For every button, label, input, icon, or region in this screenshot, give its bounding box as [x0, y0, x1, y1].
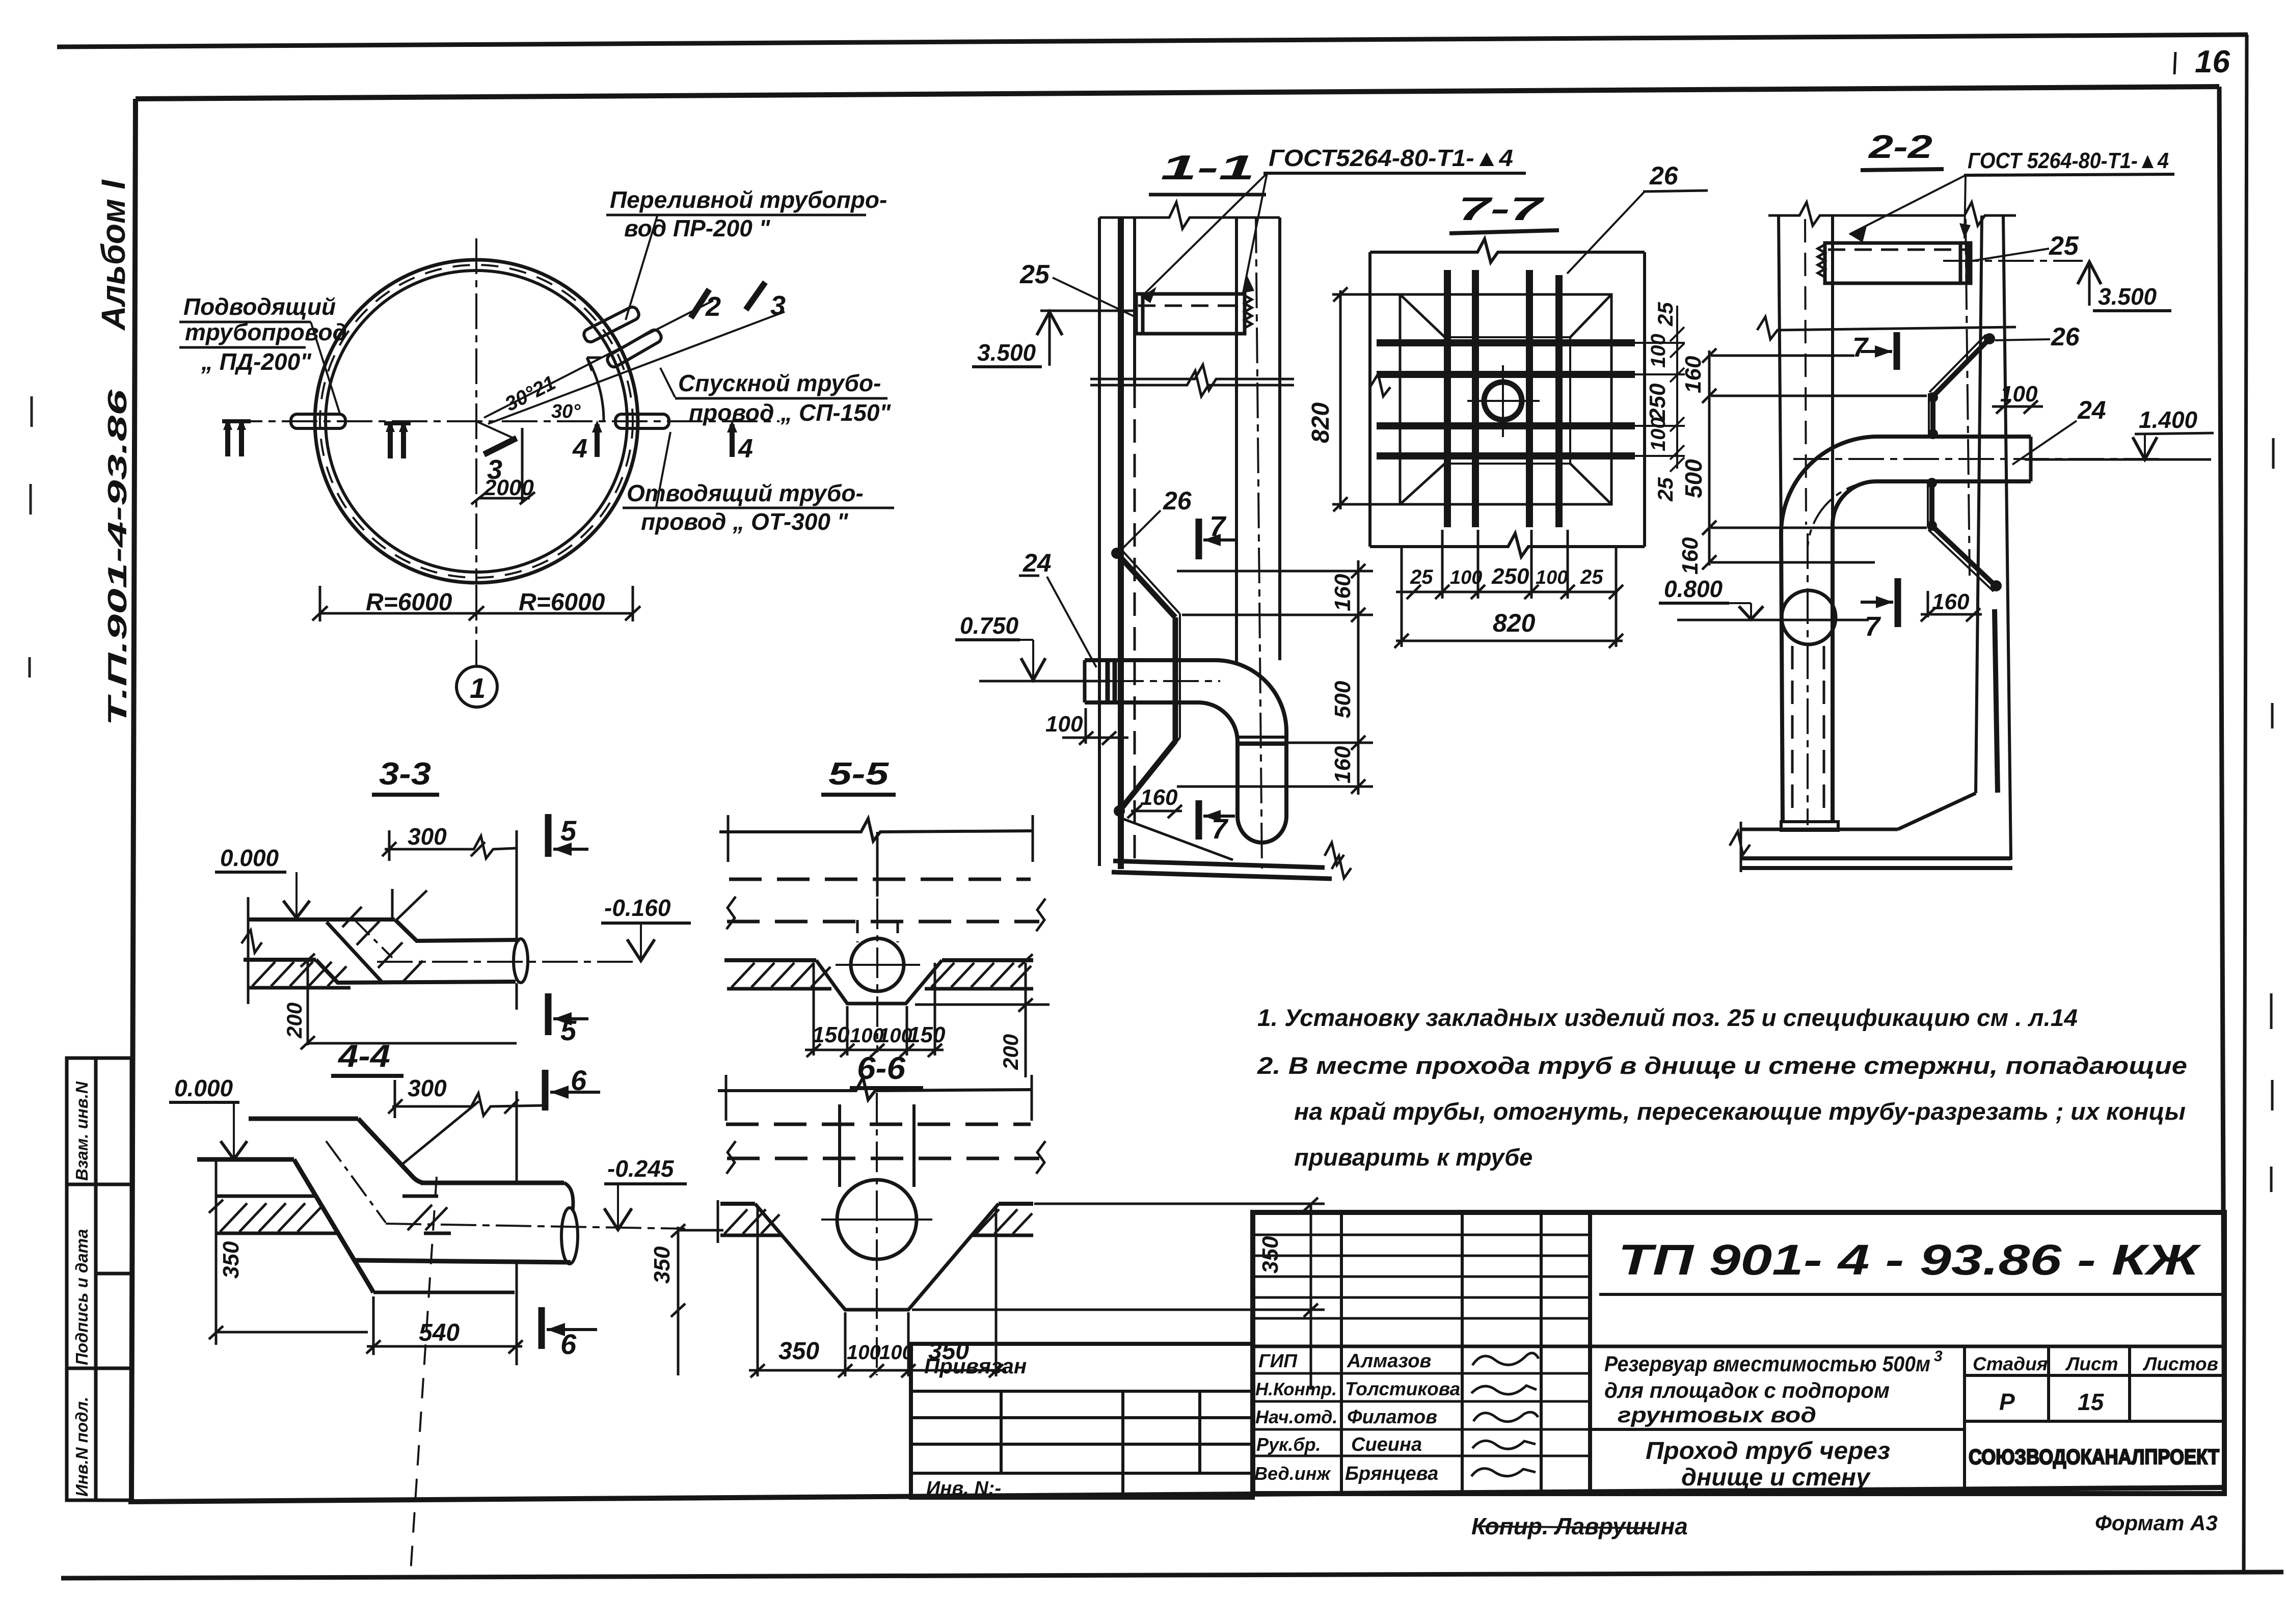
svg-text:провод „ СП-150": провод „ СП-150": [689, 399, 891, 426]
svg-text:25: 25: [1019, 260, 1050, 289]
svg-text:Нач.отд.: Нач.отд.: [1255, 1406, 1337, 1427]
svg-text:Рук.бр.: Рук.бр.: [1256, 1434, 1321, 1455]
svg-text:Инв. N:-: Инв. N:-: [926, 1478, 1001, 1499]
svg-text:на край трубы, отогнуть, п: на край трубы, отогнуть, пересекающие тр…: [1294, 1098, 2186, 1125]
svg-text:100: 100: [1450, 567, 1482, 588]
svg-text:6: 6: [571, 1064, 587, 1096]
svg-text:7: 7: [1209, 510, 1227, 542]
svg-text:100: 100: [2000, 382, 2038, 407]
svg-text:6: 6: [560, 1328, 577, 1360]
svg-text:250: 250: [1645, 383, 1670, 421]
svg-text:Взам. инв.N: Взам. инв.N: [72, 1081, 91, 1181]
svg-text:R=6000: R=6000: [519, 589, 605, 616]
svg-text:5: 5: [560, 1014, 577, 1046]
svg-text:4: 4: [738, 434, 753, 464]
svg-text:25: 25: [1580, 566, 1603, 588]
svg-text:30°: 30°: [551, 401, 581, 422]
svg-text:7: 7: [1852, 332, 1869, 363]
svg-text:Спускной трубо-: Спускной трубо-: [678, 370, 881, 396]
svg-text:300: 300: [408, 1075, 447, 1101]
svg-text:ТП 901- 4 - 93.86 - КЖ: ТП 901- 4 - 93.86 - КЖ: [1618, 1236, 2201, 1284]
svg-text:Брянцева: Брянцева: [1345, 1463, 1438, 1484]
svg-text:0.750: 0.750: [960, 612, 1019, 639]
svg-text:350: 350: [778, 1338, 819, 1365]
svg-text:вод ПР-200 ": вод ПР-200 ": [624, 215, 771, 241]
svg-text:150: 150: [812, 1022, 850, 1047]
svg-text:ГОСТ5264-80-Т1-▲4: ГОСТ5264-80-Т1-▲4: [1269, 145, 1513, 171]
svg-text:250: 250: [1491, 564, 1529, 589]
svg-text:2-2: 2-2: [1868, 128, 1932, 165]
svg-text:5-5: 5-5: [828, 756, 890, 792]
svg-text:грунтовых вод: грунтовых вод: [1618, 1403, 1816, 1427]
svg-text:3: 3: [1934, 1348, 1943, 1365]
svg-text:Отводящий трубо-: Отводящий трубо-: [627, 480, 864, 506]
svg-text:2000: 2000: [483, 475, 534, 500]
svg-text:300: 300: [408, 823, 447, 850]
svg-text:3.500: 3.500: [2098, 283, 2157, 310]
svg-text:1.400: 1.400: [2139, 407, 2198, 433]
svg-text:Инв.N подл.: Инв.N подл.: [72, 1397, 91, 1497]
svg-text:24: 24: [1023, 549, 1052, 577]
svg-text:25: 25: [1410, 566, 1433, 588]
svg-text:540: 540: [419, 1319, 460, 1346]
svg-text:Алмазов: Алмазов: [1347, 1350, 1431, 1372]
svg-text:1. Установку закладных из: 1. Установку закладных изделий поз. 25 и…: [1257, 1004, 2078, 1031]
svg-text:160: 160: [1678, 537, 1703, 575]
svg-text:0.000: 0.000: [174, 1075, 233, 1101]
svg-text:5: 5: [560, 815, 577, 847]
svg-text:приварить к трубе: приварить к трубе: [1294, 1144, 1532, 1171]
svg-text:16: 16: [2195, 44, 2230, 79]
svg-text:200: 200: [999, 1034, 1023, 1070]
svg-text:Формат А3: Формат А3: [2095, 1511, 2218, 1535]
svg-text:100: 100: [1045, 712, 1083, 737]
svg-text:Толстикова: Толстикова: [1345, 1378, 1460, 1399]
svg-text:7: 7: [1865, 611, 1881, 642]
svg-text:350: 350: [219, 1241, 244, 1279]
svg-text:Привязан: Привязан: [924, 1354, 1027, 1378]
svg-text:-0.160: -0.160: [604, 895, 671, 921]
svg-text:160: 160: [1681, 356, 1706, 393]
svg-text:100: 100: [1647, 417, 1670, 451]
svg-text:Подводящий: Подводящий: [183, 293, 336, 320]
svg-text:Лист: Лист: [2065, 1354, 2118, 1374]
svg-text:500: 500: [1680, 459, 1707, 498]
svg-text:24: 24: [2077, 396, 2106, 424]
svg-text:для площадок с подпором: для площадок с подпором: [1604, 1378, 1890, 1403]
svg-text:500: 500: [1330, 681, 1355, 718]
svg-text:1: 1: [470, 672, 486, 704]
svg-text:160: 160: [1330, 574, 1355, 611]
svg-text:Т.П.901-4-93.86: Т.П.901-4-93.86: [103, 389, 132, 726]
svg-text:100: 100: [847, 1341, 881, 1364]
svg-text:ГОСТ 5264-80-Т1-▲4: ГОСТ 5264-80-Т1-▲4: [1968, 148, 2169, 173]
svg-text:СОЮЗВОДОКАНАЛПРОЕКТ: СОЮЗВОДОКАНАЛПРОЕКТ: [1969, 1445, 2219, 1469]
svg-text:2. В месте прохода труб в: 2. В месте прохода труб в днище и стене …: [1257, 1052, 2187, 1079]
svg-text:0.800: 0.800: [1664, 576, 1723, 602]
svg-text:Проход труб через: Проход труб через: [1646, 1438, 1890, 1465]
svg-text:160: 160: [1140, 785, 1178, 810]
svg-text:100: 100: [1647, 334, 1670, 368]
svg-text:Подпись и дата: Подпись и дата: [72, 1229, 91, 1366]
svg-text:200: 200: [282, 1003, 306, 1039]
svg-text:1-1: 1-1: [1161, 148, 1255, 187]
svg-text:25: 25: [1653, 477, 1677, 502]
svg-text:Резервуар вместимостью 500м: Резервуар вместимостью 500м: [1604, 1352, 1930, 1376]
svg-text:днище и стену: днище и стену: [1681, 1464, 1871, 1491]
svg-text:провод „ ОТ-300 ": провод „ ОТ-300 ": [641, 508, 849, 535]
svg-text:4: 4: [572, 434, 587, 464]
svg-text:-0.245: -0.245: [607, 1155, 675, 1182]
svg-text:3: 3: [770, 290, 786, 321]
svg-text:25: 25: [2049, 231, 2079, 261]
svg-text:25: 25: [1653, 302, 1677, 327]
svg-text:3.500: 3.500: [977, 339, 1036, 366]
svg-text:Альбом I: Альбом I: [94, 179, 132, 331]
svg-text:7-7: 7-7: [1458, 191, 1545, 227]
svg-text:Листов: Листов: [2142, 1354, 2218, 1374]
svg-text:820: 820: [1493, 609, 1536, 637]
svg-text:Н.Контр.: Н.Контр.: [1255, 1379, 1337, 1399]
svg-text:Филатов: Филатов: [1347, 1406, 1437, 1428]
svg-text:Сиеина: Сиеина: [1351, 1434, 1422, 1455]
svg-text:820: 820: [1307, 402, 1334, 443]
svg-text:160: 160: [1932, 589, 1970, 614]
svg-text:Стадия: Стадия: [1973, 1354, 2048, 1374]
svg-text:26: 26: [1649, 161, 1679, 190]
svg-text:2: 2: [705, 291, 721, 322]
svg-text:15: 15: [2078, 1389, 2105, 1415]
svg-text:3-3: 3-3: [379, 756, 431, 792]
svg-text:4-4: 4-4: [337, 1039, 390, 1074]
svg-text:„ ПД-200": „ ПД-200": [201, 348, 312, 375]
svg-text:100: 100: [1536, 567, 1568, 588]
svg-text:7: 7: [1212, 813, 1229, 845]
svg-text:Переливной трубопро-: Переливной трубопро-: [610, 186, 887, 213]
svg-text:160: 160: [1330, 746, 1355, 783]
svg-text:ГИП: ГИП: [1258, 1350, 1298, 1371]
svg-text:R=6000: R=6000: [366, 589, 452, 616]
svg-text:350: 350: [650, 1246, 675, 1284]
svg-text:0.000: 0.000: [220, 845, 279, 871]
svg-text:26: 26: [2051, 322, 2080, 351]
svg-text:26: 26: [1163, 486, 1192, 515]
svg-text:Вед.инж: Вед.инж: [1254, 1463, 1331, 1484]
svg-text:Р: Р: [1999, 1389, 2015, 1415]
